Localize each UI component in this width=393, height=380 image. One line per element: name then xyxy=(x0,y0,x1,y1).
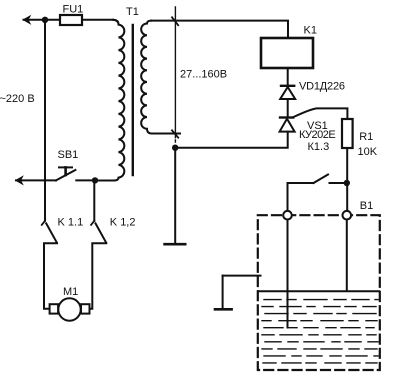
electrode terminal B1 xyxy=(343,211,352,220)
node: junction dot at FU1 line xyxy=(42,17,48,23)
wire: K1.2 branch down xyxy=(93,181,95,221)
wire: K1 to VD1 xyxy=(287,68,289,85)
mains arrow top xyxy=(22,15,31,25)
wire: switch to left electrode xyxy=(287,183,289,212)
node: dot under R1 xyxy=(344,180,350,186)
dimension line 27...160V xyxy=(174,7,176,144)
thyristor gate wire xyxy=(293,108,348,119)
diode VD1 xyxy=(280,86,295,99)
thyristor VS1 xyxy=(280,118,295,132)
svg-text:R1: R1 xyxy=(359,131,373,143)
wire: FU1 to primary xyxy=(82,19,113,21)
svg-text:27...160В: 27...160В xyxy=(180,68,227,80)
wire: R1 down to B1 xyxy=(346,148,348,212)
contact K1.2 xyxy=(90,221,107,309)
contact K1.1 xyxy=(42,221,57,309)
ground 2 (tank) xyxy=(215,276,261,310)
wire: bottom mains line xyxy=(16,179,56,181)
svg-text:FU1: FU1 xyxy=(63,3,84,15)
transformer T1 primary winding xyxy=(95,20,124,181)
svg-text:В1: В1 xyxy=(360,200,373,212)
water surface line xyxy=(259,290,380,292)
dimension tick bottom xyxy=(172,130,178,137)
ground 1 (tap) xyxy=(165,150,186,244)
svg-text:T1: T1 xyxy=(126,6,139,18)
electrode terminal left xyxy=(283,211,292,220)
water hatching xyxy=(262,300,378,363)
node: tap junction dot xyxy=(172,145,178,151)
electrode rod left xyxy=(287,220,289,328)
svg-text:VD1Д226: VD1Д226 xyxy=(299,81,345,93)
electrode rod B1 xyxy=(346,220,348,291)
svg-text:КУ202Е: КУ202Е xyxy=(299,129,335,141)
motor M1 xyxy=(50,298,90,320)
wire: left vertical live xyxy=(44,21,46,221)
mains arrow bottom xyxy=(15,175,24,185)
transformer core xyxy=(132,25,134,175)
relay coil K1 xyxy=(261,38,313,68)
wire: tap junction to VS1 cathode xyxy=(175,132,288,148)
svg-text:K 1.1: K 1.1 xyxy=(58,216,84,228)
svg-text:~220 В: ~220 В xyxy=(0,93,35,105)
dimension tick top xyxy=(172,17,178,25)
transformer T1 secondary winding xyxy=(141,21,180,134)
svg-text:M1: M1 xyxy=(63,286,78,298)
fuse FU1 xyxy=(60,15,82,25)
pushbutton SB1 xyxy=(56,167,92,180)
wire: VD1 to VS1 xyxy=(287,99,289,117)
svg-text:10K: 10K xyxy=(358,146,378,158)
wire: top mains line xyxy=(24,19,61,21)
tank dashed outline xyxy=(258,215,380,370)
node: dot SB1/primary xyxy=(92,177,98,183)
svg-text:K 1,2: K 1,2 xyxy=(110,216,136,228)
svg-text:K1: K1 xyxy=(304,25,317,37)
resistor R1 xyxy=(342,119,353,148)
contact switch near B1 xyxy=(288,175,345,184)
svg-text:К1.3: К1.3 xyxy=(308,141,330,153)
svg-text:SB1: SB1 xyxy=(58,149,79,161)
wire: secondary top to K1 xyxy=(151,21,288,38)
